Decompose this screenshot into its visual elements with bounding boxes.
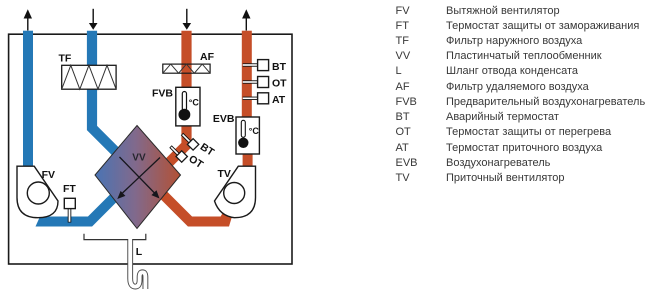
sensor BT probe (exchanger) bbox=[182, 134, 192, 144]
sensor AT probe (supply duct) bbox=[243, 97, 258, 100]
filter AF box bbox=[163, 64, 210, 73]
svg-text:EVB: EVB bbox=[213, 113, 235, 125]
flow arrow down (extract air in) bbox=[183, 9, 192, 30]
heater FVB box bbox=[176, 87, 200, 126]
svg-text:VV: VV bbox=[132, 153, 146, 164]
heat exchanger VV diamond bbox=[95, 126, 181, 229]
sensor BT box (supply duct) bbox=[258, 60, 269, 71]
FVB thermometer bulb bbox=[179, 109, 191, 121]
fan TV volute bbox=[215, 166, 256, 218]
svg-text:BT: BT bbox=[272, 61, 287, 73]
pipe: exhaust riser to FV outlet (blue) bbox=[23, 31, 33, 167]
filter TF box bbox=[62, 65, 116, 89]
fan TV hub bbox=[224, 183, 245, 204]
sensor OT box (exchanger) bbox=[176, 151, 187, 162]
svg-text:TV: TV bbox=[218, 168, 231, 180]
sensor OT box (supply duct) bbox=[258, 77, 269, 88]
svg-text:°C: °C bbox=[189, 98, 200, 108]
filter AF zigzag bbox=[163, 64, 210, 73]
svg-text:TF: TF bbox=[59, 53, 72, 65]
svg-text:FV: FV bbox=[42, 169, 55, 181]
svg-text:AF: AF bbox=[200, 51, 215, 63]
svg-text:L: L bbox=[136, 246, 143, 258]
condensate bracket bbox=[84, 234, 146, 240]
legend descriptions column bbox=[446, 4, 645, 187]
heater EVB box bbox=[236, 117, 259, 154]
svg-text:AT: AT bbox=[272, 94, 286, 106]
svg-text:°C: °C bbox=[249, 126, 260, 136]
pipe: outdoor air intake through TF (blue) bbox=[92, 31, 119, 155]
pipe: supply run diamond to TV (red) bbox=[152, 184, 226, 222]
sensor BT box (exchanger) bbox=[187, 139, 198, 150]
flow arrow up (supply air) bbox=[242, 9, 250, 30]
flow arrow down (outdoor air in) bbox=[89, 9, 98, 30]
sensor BT probe (supply duct) bbox=[243, 63, 258, 66]
svg-text:FT: FT bbox=[63, 183, 76, 195]
exchanger flow arrow left-to-right bbox=[120, 157, 160, 199]
flow arrow up (exhaust air out) bbox=[24, 9, 32, 30]
svg-text:OT: OT bbox=[272, 78, 287, 90]
condensate drain trap bore bbox=[130, 239, 145, 291]
fan FV volute bbox=[17, 166, 58, 218]
pipe: supply riser through EVB (red) bbox=[242, 31, 252, 119]
sensor OT probe (exchanger) bbox=[171, 147, 181, 157]
EVB thermometer bulb bbox=[238, 138, 248, 148]
EVB thermometer stem bbox=[241, 120, 245, 137]
casing box bbox=[9, 34, 292, 264]
pipe: exhaust run diamond to FV (blue) bbox=[46, 191, 121, 222]
pipe: extract air duct through AF/FVB (red) bbox=[161, 31, 187, 171]
svg-text:FVB: FVB bbox=[152, 88, 173, 100]
fan FV hub bbox=[27, 182, 49, 204]
condensate drain trap outline bbox=[130, 240, 145, 289]
sensor FT box bbox=[64, 198, 75, 208]
filter TF zigzag bbox=[62, 65, 116, 89]
sensor AT box (supply duct) bbox=[258, 93, 269, 104]
pipe: supply stub EVB to TV fan (red) bbox=[243, 153, 253, 168]
legend codes column bbox=[396, 4, 418, 187]
exchanger flow arrow right-to-left bbox=[117, 158, 160, 200]
FVB thermometer stem bbox=[182, 92, 186, 111]
sensor FT probe bbox=[68, 208, 72, 223]
sensor OT probe (supply duct) bbox=[243, 80, 258, 83]
